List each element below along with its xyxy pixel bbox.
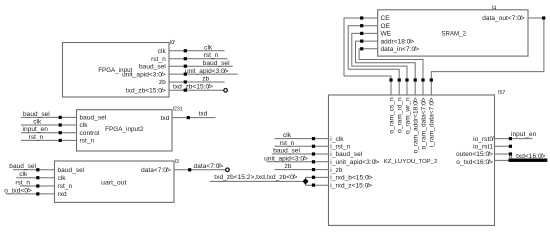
svg-text:I3: I3 [175, 159, 179, 165]
svg-text:input_en: input_en [511, 131, 537, 138]
svg-text:I231: I231 [173, 106, 183, 112]
svg-text:txd: txd [199, 111, 208, 118]
svg-text:i_baud_sel: i_baud_sel [330, 151, 362, 158]
svg-text:KZ_LUYOU_TOP_2: KZ_LUYOU_TOP_2 [384, 159, 438, 165]
svg-text:FPGA_input2: FPGA_input2 [105, 126, 144, 133]
svg-text:i_rst_n: i_rst_n [330, 144, 350, 151]
svg-text:rst_n: rst_n [204, 52, 219, 59]
svg-text:o_ram_wr_n: o_ram_wr_n [404, 97, 411, 134]
svg-text:o_ram_data<7:0̸>: o_ram_data<7:0̸> [419, 97, 427, 149]
svg-text:i_rxd_b<15:0̸>: i_rxd_b<15:0̸> [330, 174, 372, 182]
svg-text:WE: WE [381, 31, 392, 38]
svg-text:clk: clk [58, 175, 67, 182]
svg-text:rst_n: rst_n [15, 179, 30, 186]
svg-text:o_txd<16:0̸>: o_txd<16:0̸> [509, 152, 546, 160]
svg-text:o_txd<0̸>: o_txd<0̸> [4, 186, 32, 194]
svg-text:data_out<7:0̸>: data_out<7:0̸> [482, 14, 525, 22]
svg-text:baud_sel: baud_sel [58, 167, 85, 174]
svg-text:clk: clk [80, 122, 89, 129]
svg-text:outen<15:0̸>: outen<15:0̸> [456, 150, 493, 158]
svg-text:i_zb: i_zb [330, 167, 342, 174]
svg-text:clk: clk [204, 44, 213, 51]
svg-text:unit_apid<3:0̸>: unit_apid<3:0̸> [264, 154, 308, 162]
svg-text:rst_n: rst_n [280, 140, 295, 147]
svg-text:baud_sel: baud_sel [9, 163, 36, 170]
svg-text:OE: OE [381, 23, 391, 30]
svg-text:i_rxd_z<15:0̸>: i_rxd_z<15:0̸> [330, 181, 372, 189]
svg-text:I57: I57 [498, 90, 505, 96]
svg-text:rst_n: rst_n [80, 138, 95, 145]
svg-text:txd_zb<15:0̸>: txd_zb<15:0̸> [126, 86, 166, 94]
svg-text:o_txd<16:0̸>: o_txd<16:0̸> [456, 158, 493, 166]
svg-text:rst_n: rst_n [29, 134, 44, 141]
svg-text:data<7:0̸>: data<7:0̸> [141, 166, 171, 174]
svg-text:I4: I4 [492, 5, 496, 11]
svg-text:rxd: rxd [58, 191, 68, 198]
svg-text:addr<18:0̸>: addr<18:0̸> [381, 37, 415, 45]
svg-text:txd_zb<15:2>,txd,txd_zb<0̸>: txd_zb<15:2>,txd,txd_zb<0̸> [214, 173, 297, 181]
svg-text:baud_sel: baud_sel [23, 111, 50, 118]
svg-text:SRAM_2: SRAM_2 [441, 30, 466, 37]
svg-text:txd: txd [160, 115, 169, 122]
svg-text:clk: clk [283, 132, 292, 139]
svg-text:baud_sel: baud_sel [203, 60, 230, 67]
svg-text:baud_sel: baud_sel [139, 63, 166, 70]
svg-text:o_ram_cs_n: o_ram_cs_n [388, 97, 395, 134]
svg-text:o_ram_rd_n: o_ram_rd_n [397, 97, 404, 133]
svg-text:FPGA_input: FPGA_input [98, 67, 132, 74]
svg-text:CE: CE [381, 15, 391, 22]
svg-text:rst_n: rst_n [58, 183, 73, 190]
svg-text:i_unit_apid<3:0̸>: i_unit_apid<3:0̸> [330, 158, 379, 166]
svg-text:data<7:0̸>: data<7:0̸> [194, 162, 224, 170]
svg-text:o_ram_addr<18:0̸>: o_ram_addr<18:0̸> [412, 97, 420, 153]
svg-text:i_ram_data<7:0̸>: i_ram_data<7:0̸> [428, 97, 436, 147]
svg-text:txd_zb<15:0̸>: txd_zb<15:0̸> [173, 83, 213, 91]
svg-text:zb: zb [159, 79, 166, 86]
svg-text:baud_sel: baud_sel [80, 115, 107, 122]
svg-text:io_rst1: io_rst1 [473, 144, 493, 151]
svg-text:clk: clk [19, 171, 28, 178]
svg-text:rst_n: rst_n [151, 56, 166, 63]
svg-text:unit_apid<3:0̸>: unit_apid<3:0̸> [185, 67, 229, 75]
svg-text:clk: clk [158, 48, 167, 55]
svg-text:input_en: input_en [23, 126, 49, 133]
svg-text:zb: zb [285, 163, 292, 170]
svg-text:data_in<7:0̸>: data_in<7:0̸> [381, 45, 420, 53]
svg-text:baud_sel: baud_sel [273, 148, 300, 155]
svg-text:uart_out: uart_out [101, 180, 126, 187]
svg-text:zb: zb [202, 76, 209, 83]
svg-text:clk: clk [33, 119, 42, 126]
svg-text:io_rst0̸: io_rst0̸ [473, 135, 494, 143]
svg-text:i_clk: i_clk [330, 136, 344, 143]
svg-text:control: control [80, 130, 100, 137]
